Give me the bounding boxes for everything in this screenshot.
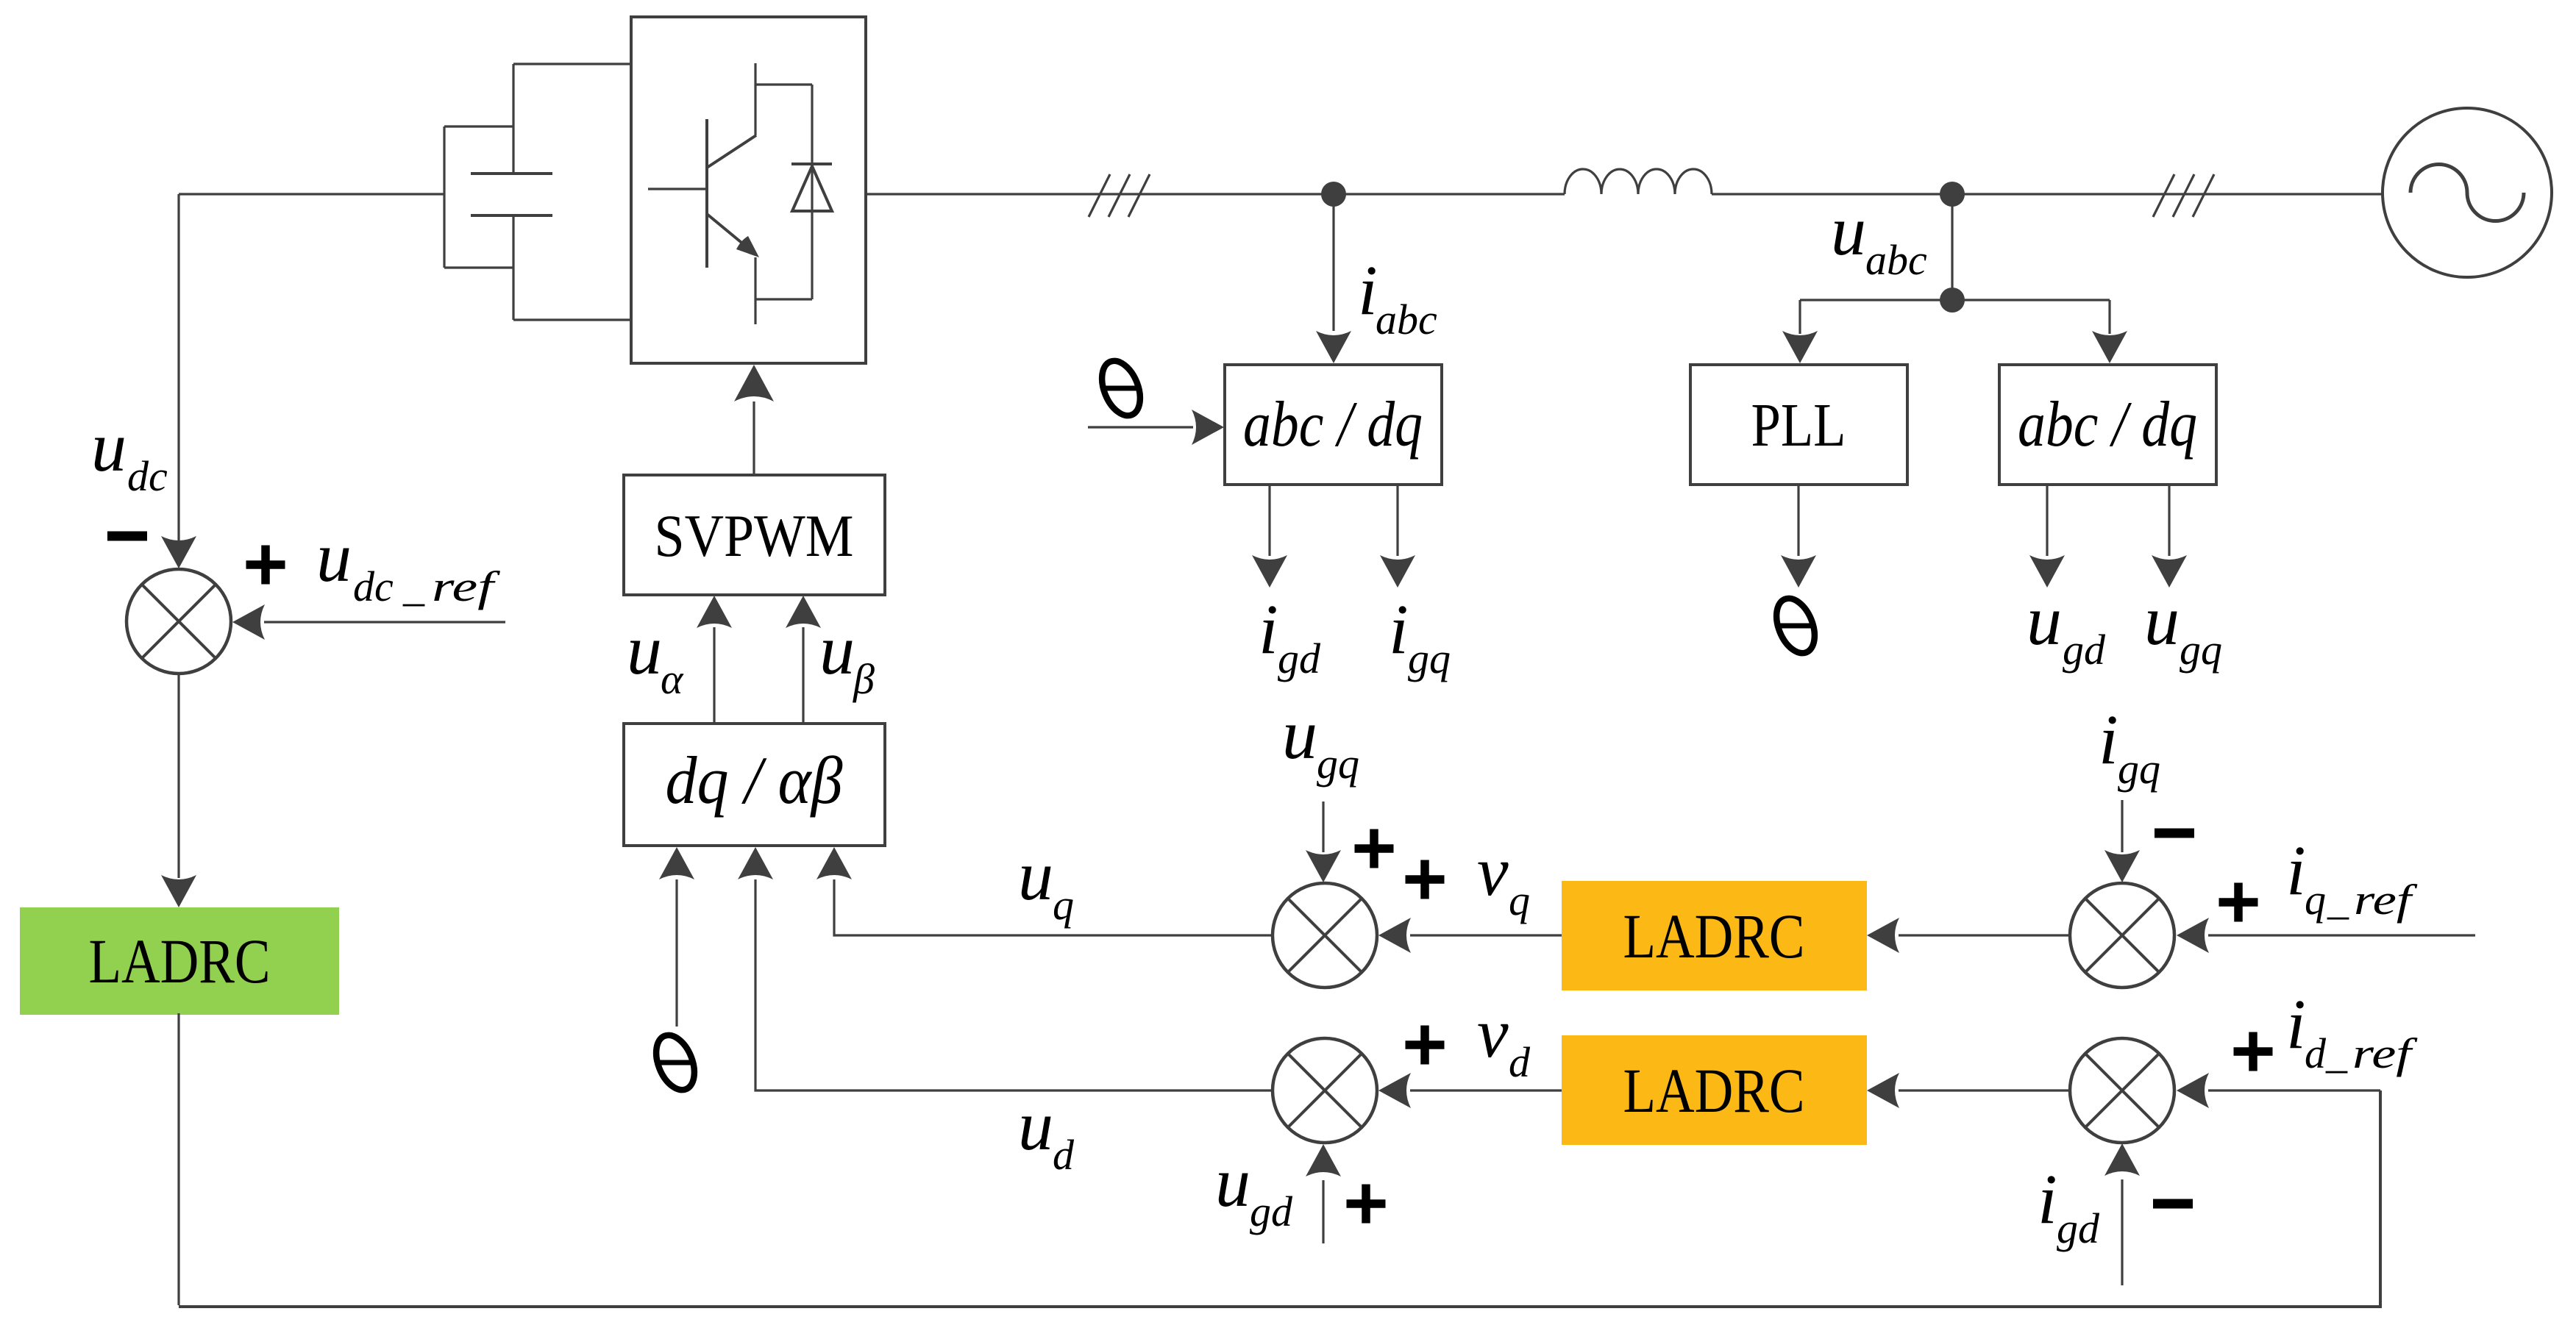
svg-text:d_ref: d_ref (2305, 1029, 2418, 1077)
plus sign (v_q into S2) (1406, 860, 1445, 899)
svg-text:abc: abc (1865, 236, 1927, 284)
label v_q (1477, 832, 1530, 924)
svg-text:abc / dq: abc / dq (1243, 389, 1423, 460)
wire: u_abc splitter rail (1800, 299, 2110, 301)
wire: dc-link frame to inverter (513, 64, 632, 320)
svg-text:dq / αβ: dq / αβ (666, 743, 843, 818)
svg-text:gd: gd (2063, 626, 2106, 674)
label u_q (1018, 836, 1074, 929)
svg-text:PLL: PLL (1751, 391, 1846, 460)
svg-text:u: u (627, 610, 662, 689)
svg-text:i: i (2038, 1160, 2057, 1238)
wire: theta input arrow to dq/ab (659, 847, 694, 1027)
label theta (PLL output) (1769, 593, 1822, 659)
transistor Q1 (IGBT) (648, 63, 812, 324)
inductor L (filter) (1565, 169, 1712, 194)
svg-text:u: u (819, 610, 855, 689)
svg-text:u: u (1215, 1143, 1250, 1221)
wire: PLL theta output arrow (1781, 485, 1816, 588)
svg-text:u: u (1282, 695, 1317, 774)
plus sign (u_dc_ref into S1) (246, 546, 285, 585)
svg-text:v: v (1477, 832, 1509, 910)
svg-text:i: i (2099, 700, 2118, 779)
wire: u_gq arrow into S2 (1306, 802, 1341, 882)
controller LADRC (d-axis current) (1563, 1037, 1865, 1143)
label v_d (1477, 993, 1531, 1086)
wire: i_gd arrow into S4 (2104, 1143, 2140, 1285)
capacitor C plates and leads (471, 64, 552, 320)
svg-text:i: i (1358, 251, 1378, 329)
label u_gq (into S2) (1282, 695, 1359, 788)
block dq/alpha-beta (624, 724, 885, 846)
plus sign (i_q_ref into S3) (2219, 883, 2258, 922)
svg-text:i: i (2286, 831, 2306, 910)
label i_abc (1358, 251, 1437, 343)
wire: ac bus inverter to inductor (866, 193, 1565, 195)
svg-text:LADRC: LADRC (89, 926, 271, 996)
block abc/dq (voltage transform) (1999, 365, 2216, 485)
wire: u_gd arrow into S5 (1306, 1144, 1341, 1243)
svg-text:gq: gq (2180, 626, 2222, 674)
wire: u_gd output arrow (2029, 485, 2065, 588)
label u_gq (transform output) (2144, 581, 2222, 674)
svg-text:q: q (1053, 881, 1074, 929)
three-phase slash marks (left group) (1089, 174, 1150, 217)
wire: branch into abc/dq (2092, 300, 2127, 363)
svg-text:LADRC: LADRC (1623, 901, 1805, 971)
svg-text:gd: gd (1250, 1188, 1293, 1235)
block SVPWM (624, 475, 885, 595)
label u_abc (1831, 191, 1927, 284)
wire: i_gd output arrow (1252, 485, 1287, 588)
label i_gd (into S4) (2038, 1160, 2100, 1252)
wire: gate drive arrow into inverter (734, 365, 774, 475)
svg-text:gd: gd (1278, 635, 1321, 682)
label u_gd (transform output) (2027, 581, 2106, 674)
label i_gd (transform output) (1259, 590, 1321, 682)
controller LADRC (q-axis current) (1563, 882, 1865, 989)
svg-text:d: d (1509, 1038, 1531, 1086)
svg-text:gq: gq (1408, 635, 1451, 682)
wire: dc bus from u_dc branch to capacitor (179, 193, 445, 195)
svg-text:β: β (853, 655, 875, 703)
svg-text:dc: dc (127, 452, 168, 500)
wire: grid bus to source (1954, 193, 2382, 195)
node B (voltage measurement tap) (1940, 182, 1965, 207)
label u_dc (91, 407, 168, 500)
wire: u_q input to dq/ab (816, 847, 1273, 935)
svg-text:q: q (1509, 877, 1530, 924)
minus sign (i_gd into S4) (2153, 1199, 2193, 1209)
label theta (input to abc/dq) (1095, 355, 1148, 421)
svg-text:u: u (2144, 581, 2180, 660)
plus sign (i_d_ref into S4) (2234, 1032, 2273, 1071)
wire: LADRC dc output down (177, 1013, 179, 1305)
svg-text:v: v (1477, 993, 1509, 1072)
inverter block U1 (box) (631, 17, 866, 363)
wire: branch into PLL (1782, 300, 1818, 363)
svg-text:abc / dq: abc / dq (2018, 389, 2197, 460)
minus sign (u_dc into S1) (107, 532, 147, 541)
svg-text:gd: gd (2057, 1204, 2100, 1252)
label i_gq (into S3) (2099, 700, 2160, 793)
summing junction S3 (q current error) (2070, 883, 2174, 988)
wire: u_d input to dq/ab (738, 847, 1273, 1090)
three-phase slash marks (right group) (2153, 174, 2214, 217)
svg-text:u: u (316, 518, 352, 596)
label u_alpha (627, 610, 684, 703)
wire: i_abc drop from node A (1316, 194, 1351, 363)
svg-text:gq: gq (1317, 740, 1359, 788)
wire: u_dc_ref into S1 (232, 604, 505, 640)
node C (u_abc splitter) (1940, 288, 1965, 313)
wire: u_beta arrow (786, 596, 821, 724)
minus sign (i_gq into S3) (2155, 829, 2194, 838)
svg-text:u: u (1831, 191, 1866, 270)
diode D1 (anti-parallel) (791, 85, 832, 299)
svg-text:d: d (1053, 1131, 1075, 1179)
summing junction S5 (d-axis voltage) (1273, 1038, 1377, 1143)
svg-text:q_ref: q_ref (2305, 876, 2418, 924)
summing junction S4 (d current error) (2070, 1038, 2174, 1143)
svg-text:i: i (2286, 985, 2306, 1063)
svg-text:u: u (91, 407, 127, 486)
wire: i_q_ref into S3 (2177, 918, 2475, 953)
plus sign (v_d into S5) (1406, 1026, 1445, 1065)
wire: v_q from LADRC q to S2 (1378, 918, 1565, 953)
plus sign (u_gq into S2) (1355, 829, 1394, 868)
wire: i_d_ref feedback into S4 (2177, 1073, 2380, 1108)
node A (current measurement tap) (1321, 182, 1346, 207)
label theta (to dq/ab) (649, 1029, 702, 1096)
wire: LADRC d input from S4 (1867, 1073, 2068, 1108)
label u_gd (into S5) (1215, 1143, 1293, 1235)
wire: u_alpha arrow (697, 596, 732, 724)
wire: u_gq output arrow (2152, 485, 2187, 588)
wire: theta arrow into abc/dq (1088, 410, 1224, 445)
controller LADRC (dc voltage) (21, 909, 338, 1013)
block abc/dq (current transform) (1225, 365, 1442, 485)
label i_d_ref (2286, 985, 2418, 1077)
wire: i_gq output arrow (1380, 485, 1415, 588)
ac source G1 (grid) (2383, 108, 2552, 277)
block PLL (1690, 365, 1907, 485)
summing junction S1 (dc voltage error) (127, 569, 231, 674)
wire: u_dc sense drop (left vertical) (161, 194, 196, 568)
wire: v_d from LADRC d to S5 (1378, 1073, 1565, 1108)
svg-text:i: i (1259, 590, 1278, 668)
plus sign (u_gd into S5) (1347, 1185, 1386, 1224)
label i_gq (transform output) (1389, 590, 1451, 682)
svg-text:gq: gq (2118, 745, 2160, 793)
capacitor C (dc-link): outer loop (444, 126, 513, 268)
svg-text:u: u (1018, 1086, 1053, 1165)
svg-text:abc: abc (1376, 296, 1437, 343)
label u_beta (819, 610, 875, 703)
wire: feedback right riser (2379, 1090, 2382, 1308)
svg-text:i: i (1389, 590, 1409, 668)
label i_q_ref (2286, 831, 2418, 924)
wire: u_abc drop node B to splitter (1951, 194, 1953, 300)
svg-text:SVPWM: SVPWM (655, 502, 854, 569)
svg-text:α: α (661, 655, 684, 703)
svg-text:u: u (2027, 581, 2062, 660)
wire: inductor to grid node (1712, 193, 1954, 195)
wire: i_gq arrow into S3 (2104, 800, 2140, 882)
summing junction S2 (q-axis voltage) (1273, 883, 1377, 988)
svg-text:LADRC: LADRC (1623, 1055, 1805, 1126)
wire: LADRC q input from S3 (1867, 918, 2068, 953)
label u_d (1018, 1086, 1075, 1179)
svg-text:u: u (1018, 836, 1053, 915)
label u_dc_ref (316, 518, 500, 610)
wire: feedback bottom rail (179, 1305, 2382, 1308)
wire: S1 to LADRC dc (161, 674, 196, 907)
